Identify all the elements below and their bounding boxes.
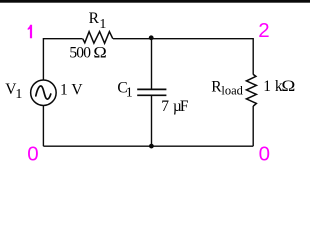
- svg-text:1: 1: [99, 17, 106, 32]
- svg-text:7 µ: 7 µ: [161, 98, 182, 115]
- svg-text:R: R: [89, 10, 100, 27]
- wire top junction to node 2 corner: [151, 38, 253, 40]
- resistor Rload: [246, 74, 256, 106]
- svg-text:Ω: Ω: [281, 78, 295, 95]
- node 1: [28, 25, 32, 39]
- wire middle vertical lower (C1 to bottom junction): [151, 96, 153, 146]
- svg-text:Ω: Ω: [93, 45, 106, 62]
- wire top-left horizontal (node1 to R1): [43, 38, 82, 40]
- svg-text:0: 0: [27, 143, 44, 166]
- junction dot bottom (node 0 net): [149, 144, 154, 149]
- svg-text:1 k: 1 k: [263, 78, 283, 95]
- junction dot top (node 2 net): [149, 35, 154, 40]
- svg-text:2: 2: [258, 19, 275, 42]
- wire bottom horizontal right (bottom junction to right corner): [151, 145, 253, 147]
- label R1: [89, 10, 107, 32]
- label C1: [117, 80, 132, 101]
- wire R1 to top junction: [113, 38, 151, 40]
- wire left vertical upper (node1 down to V1): [42, 38, 44, 80]
- wire bottom horizontal left (node0 to bottom junction): [43, 145, 151, 147]
- svg-text:0: 0: [259, 143, 276, 166]
- wire right vertical upper (node2 corner to Rload): [252, 38, 254, 75]
- svg-text:1: 1: [126, 86, 133, 101]
- wire middle vertical upper (junction to C1): [151, 38, 153, 89]
- wire right vertical lower (Rload to node 0): [252, 106, 254, 146]
- label V1: [5, 81, 22, 102]
- capacitor C1: [137, 89, 166, 95]
- svg-text:1 V: 1 V: [60, 81, 83, 98]
- label Rload: [211, 79, 243, 98]
- svg-text:1: 1: [15, 87, 22, 102]
- svg-text:500: 500: [69, 45, 91, 62]
- wire left vertical lower (V1 to node 0): [42, 106, 44, 146]
- svg-text:load: load: [221, 84, 243, 98]
- svg-text:F: F: [180, 98, 189, 115]
- resistor R1: [83, 32, 113, 44]
- voltage source V1: [31, 80, 57, 106]
